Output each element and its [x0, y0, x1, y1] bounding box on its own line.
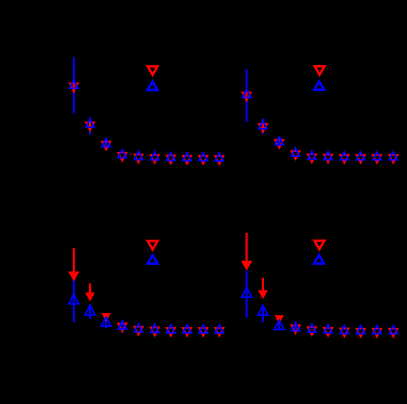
top-right point 5 marker pair (red v + blue ^): [308, 151, 316, 162]
bottom-right point 3 blue up-triangle marker: [274, 321, 284, 330]
bottom-left point 2 blue up-triangle marker: [85, 305, 95, 315]
bottom-right point 3 red down-triangle marker: [275, 315, 284, 324]
top-right panel: point 2 red error bar: [262, 121, 264, 133]
bottom-left point 6 marker pair (red v + blue ^): [151, 324, 159, 335]
top-right panel: point 1 red error bar: [246, 89, 248, 101]
bottom-left point 3 red down-triangle marker: [101, 313, 110, 322]
bottom-right point 4 marker pair (red v + blue ^): [291, 323, 299, 334]
bottom-left point 7 marker pair (red v + blue ^): [167, 325, 175, 336]
top-left point 2 marker pair (red v + blue ^): [86, 119, 94, 130]
bottom-right panel: point 3 blue error bar: [278, 317, 280, 330]
top-right panel: point 1 blue error bar: [246, 69, 248, 122]
bottom-left panel: point 3 blue error bar: [105, 316, 107, 329]
top-left legend red down-triangle: [148, 66, 158, 74]
bottom-right point 1 blue up-triangle marker: [242, 288, 252, 298]
top-left point 3 marker pair (red v + blue ^): [102, 139, 110, 150]
bottom-left panel: point 4 blue error bar: [121, 320, 123, 333]
top-right point 9 marker pair (red v + blue ^): [373, 152, 381, 163]
bottom-right legend blue up-triangle: [314, 255, 324, 263]
top-left point 4 marker pair (red v + blue ^): [118, 150, 126, 161]
bottom-right point 10 marker pair (red v + blue ^): [389, 326, 397, 337]
bottom-right panel: point 2 blue error bar: [262, 305, 264, 322]
top-right point 10 marker pair (red v + blue ^): [389, 152, 397, 163]
top-left point 7 marker pair (red v + blue ^): [167, 152, 175, 163]
top-left panel: point 1 red error bar: [73, 80, 75, 93]
bottom-right point 9 marker pair (red v + blue ^): [373, 326, 381, 337]
bottom-right panel: point 2 red down arrow (limit): [258, 278, 268, 300]
bottom-right point 6 marker pair (red v + blue ^): [324, 325, 332, 336]
top-right point 6 marker pair (red v + blue ^): [324, 152, 332, 163]
top-left panel: point 1 blue error bar: [73, 58, 75, 114]
bottom-right panel: point 4 blue error bar: [295, 321, 297, 334]
bottom-right panel: point 1 red down arrow (limit): [241, 233, 252, 271]
top-left legend blue up-triangle: [148, 82, 158, 90]
bottom-left point 10 marker pair (red v + blue ^): [215, 325, 223, 336]
bottom-left legend blue up-triangle: [148, 255, 158, 263]
top-left panel: point 2 red error bar: [89, 119, 91, 131]
top-right point 2 marker pair (red v + blue ^): [259, 121, 267, 132]
top-right point 7 marker pair (red v + blue ^): [340, 152, 348, 163]
bottom-right point 8 marker pair (red v + blue ^): [357, 326, 365, 337]
top-right legend blue up-triangle: [314, 81, 324, 89]
bottom-left point 3 blue up-triangle marker: [101, 317, 111, 326]
bottom-right point 7 marker pair (red v + blue ^): [340, 325, 348, 336]
top-right point 8 marker pair (red v + blue ^): [357, 152, 365, 163]
bottom-right point 2 blue up-triangle marker: [258, 306, 268, 316]
bottom-right legend red down-triangle: [315, 241, 325, 249]
top-right point 4 marker pair (red v + blue ^): [291, 148, 299, 159]
top-left point 9 marker pair (red v + blue ^): [199, 153, 207, 164]
bottom-left point 8 marker pair (red v + blue ^): [183, 325, 191, 336]
top-right panel: point 3 blue error bar: [278, 138, 280, 147]
top-left point 10 marker pair (red v + blue ^): [215, 153, 223, 164]
top-left point 8 marker pair (red v + blue ^): [183, 153, 191, 164]
bottom-left panel: point 1 blue error bar: [73, 280, 75, 322]
top-right legend red down-triangle: [315, 66, 325, 74]
top-right point 1 marker pair (red v + blue ^): [242, 89, 250, 100]
top-right point 3 marker pair (red v + blue ^): [275, 137, 283, 148]
top-right panel: point 2 blue error bar: [262, 118, 264, 134]
bottom-right panel: point 1 blue error bar: [246, 271, 248, 318]
bottom-left panel: point 2 red down arrow (limit): [85, 283, 95, 301]
top-left panel: point 3 blue error bar: [105, 139, 107, 150]
bottom-left point 5 marker pair (red v + blue ^): [134, 324, 142, 335]
top-left point 5 marker pair (red v + blue ^): [134, 151, 142, 162]
bottom-left point 1 blue up-triangle marker: [69, 294, 79, 304]
bottom-left panel: point 1 red down arrow (limit): [68, 248, 79, 281]
bottom-left point 9 marker pair (red v + blue ^): [199, 325, 207, 336]
top-left point 6 marker pair (red v + blue ^): [151, 152, 159, 163]
top-left point 1 marker pair (red v + blue ^): [70, 80, 78, 91]
top-left panel: point 2 blue error bar: [89, 117, 91, 134]
bottom-left point 4 marker pair (red v + blue ^): [118, 321, 126, 332]
bottom-left legend red down-triangle: [148, 241, 158, 249]
bottom-left panel: point 2 blue error bar: [89, 304, 91, 319]
bottom-right point 5 marker pair (red v + blue ^): [308, 324, 316, 335]
